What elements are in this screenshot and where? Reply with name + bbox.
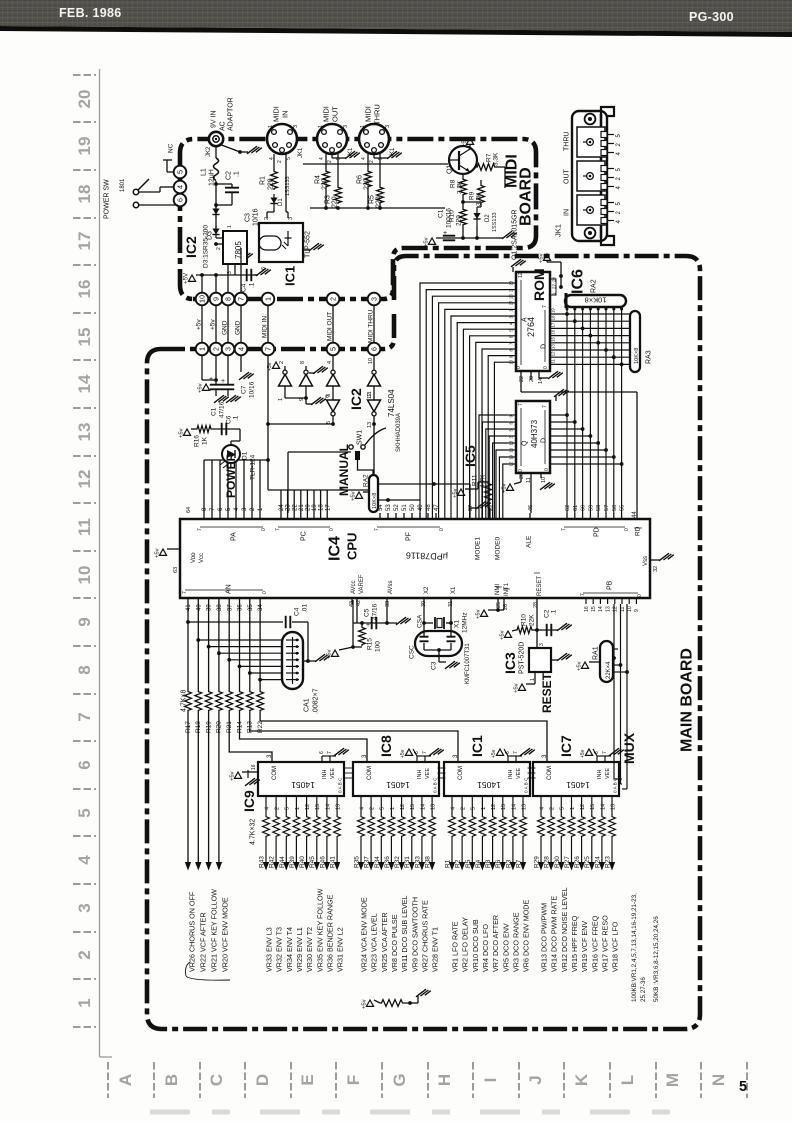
svg-text:7: 7 <box>542 305 548 308</box>
svg-text:7: 7 <box>374 528 380 531</box>
resistor R5 220 <box>379 154 381 186</box>
svg-text:1: 1 <box>227 225 233 228</box>
svg-text:R23: R23 <box>605 856 612 868</box>
ROM address pins and CPU bus staircase <box>507 282 516 284</box>
svg-text:5: 5 <box>285 807 291 810</box>
JK1 jack IN <box>577 195 605 225</box>
+5v NMI <box>480 610 487 616</box>
RA2 pin dots <box>566 308 569 311</box>
svg-text:D1: D1 <box>278 198 284 206</box>
svg-text:48: 48 <box>426 504 432 511</box>
svg-text:13: 13 <box>336 804 342 810</box>
svg-text:RA2: RA2 <box>362 474 369 487</box>
ground near jack <box>247 146 257 154</box>
svg-text:12: 12 <box>400 804 406 810</box>
svg-text:X2: X2 <box>424 586 430 594</box>
svg-text:VR1 LFO RATE: VR1 LFO RATE <box>451 921 460 972</box>
multiplexer IC9 14051 box <box>258 762 344 796</box>
ground IC5 top <box>555 396 557 401</box>
svg-text:IN: IN <box>281 111 290 119</box>
diode D1 1SS133 <box>273 194 275 208</box>
svg-text:5: 5 <box>560 807 566 810</box>
svg-text:63: 63 <box>173 567 179 573</box>
svg-text:3: 3 <box>539 643 545 646</box>
svg-text:+: + <box>443 230 447 237</box>
svg-text:D2: D2 <box>485 214 491 222</box>
capacitor C1 100/16 <box>462 226 464 238</box>
svg-text:AN: AN <box>225 584 232 594</box>
svg-text:POWER: POWER <box>224 452 238 498</box>
capacitor C2 .1 reset <box>537 629 545 631</box>
svg-text:1: 1 <box>263 297 272 301</box>
resistor R3 220 <box>337 154 339 186</box>
svg-text:VR8 DCO PULSE: VR8 DCO PULSE <box>390 914 399 972</box>
arrow VR22 <box>195 862 201 871</box>
svg-text:R37: R37 <box>364 856 371 868</box>
wire AN34 to IC7 COM <box>260 712 547 762</box>
svg-text:VR28 ENV T1: VR28 ENV T1 <box>431 927 440 972</box>
svg-text:R4: R4 <box>475 859 482 868</box>
+5v Q1 emitter <box>469 144 471 149</box>
ceramic filter C3 KMFC1007T31 <box>415 631 462 656</box>
IC5 Q pins right <box>550 414 567 416</box>
svg-text:VEE: VEE <box>330 768 336 779</box>
wire MIDI IN pin5 to IC1 <box>285 154 287 212</box>
svg-text:0: 0 <box>261 528 267 531</box>
wire SW1 to CPU <box>288 451 351 453</box>
svg-text:N: N <box>709 1074 728 1086</box>
svg-text:X1: X1 <box>453 620 460 628</box>
svg-text:14: 14 <box>538 378 544 384</box>
resistor array RA1 22Kx4 <box>600 641 613 682</box>
reset IC3 PST-520D <box>529 648 551 672</box>
svg-text:R1: R1 <box>445 859 452 868</box>
svg-text:D: D <box>541 344 548 349</box>
svg-text:2: 2 <box>277 160 283 163</box>
svg-text:4: 4 <box>75 855 94 865</box>
svg-text:59: 59 <box>588 505 594 511</box>
svg-text:1: 1 <box>318 125 324 128</box>
svg-text:18: 18 <box>75 185 94 204</box>
svg-text:5: 5 <box>286 157 292 160</box>
photocoupler IC1 TLP-552 <box>259 223 303 262</box>
svg-text:5: 5 <box>75 808 94 817</box>
svg-text:14051: 14051 <box>386 780 410 790</box>
svg-text:VR31 ENV L2: VR31 ENV L2 <box>336 927 345 972</box>
svg-text:41: 41 <box>186 604 192 611</box>
svg-text:L: L <box>618 1075 637 1085</box>
svg-text:R28: R28 <box>544 856 551 868</box>
svg-text:R6: R6 <box>495 859 502 868</box>
svg-text:33: 33 <box>385 601 391 607</box>
svg-text:50KB :VR3,6,8-12,15,20,24,26: 50KB :VR3,6,8-12,15,20,24,26 <box>653 916 660 1002</box>
svg-text:1: 1 <box>570 807 576 810</box>
svg-text:K: K <box>572 1073 591 1086</box>
svg-text:+5v: +5v <box>400 749 406 758</box>
svg-text:E: E <box>298 1074 317 1085</box>
svg-text:SKHHAD039A: SKHHAD039A <box>396 413 402 452</box>
svg-text:4: 4 <box>539 807 545 810</box>
svg-text:IC8: IC8 <box>378 735 394 757</box>
svg-text:13: 13 <box>367 422 373 428</box>
LED D1 TLR-124 POWER <box>239 429 241 441</box>
crystal X1 12MHz <box>423 604 425 623</box>
svg-text:3: 3 <box>369 297 378 301</box>
resistor R6 220 <box>367 154 369 170</box>
scan artifact dashes bottom <box>150 1110 700 1115</box>
svg-text:PA: PA <box>230 532 237 541</box>
svg-text:MUX: MUX <box>621 732 637 764</box>
svg-text:43: 43 <box>349 601 355 607</box>
svg-text:10K×8: 10K×8 <box>585 296 607 305</box>
JK1 pin tabs <box>601 132 607 138</box>
svg-text:C1: C1 <box>210 407 217 416</box>
svg-text:14051: 14051 <box>477 780 501 790</box>
svg-text:51: 51 <box>402 504 408 511</box>
svg-text:JK1: JK1 <box>298 147 304 158</box>
svg-text:32: 32 <box>653 566 659 572</box>
ground IC2b upper <box>309 372 315 374</box>
svg-text:MAIN BOARD: MAIN BOARD <box>679 648 696 752</box>
svg-text:CA1: CA1 <box>303 698 310 712</box>
svg-text:2: 2 <box>75 950 94 959</box>
ground IC9 lower-left <box>247 770 249 778</box>
JK1 jack OUT <box>577 161 605 191</box>
svg-text:13: 13 <box>522 804 528 810</box>
svg-text:7: 7 <box>542 405 548 408</box>
svg-text:C7: C7 <box>240 385 247 394</box>
svg-text:5: 5 <box>328 347 337 351</box>
svg-text:74LS04: 74LS04 <box>387 389 396 417</box>
svg-text:13: 13 <box>431 804 437 810</box>
ground MIDI THRU shield <box>373 152 375 158</box>
svg-text:11: 11 <box>526 477 532 483</box>
wires AN to multiplexer commons <box>230 712 232 752</box>
svg-text:VR30 ENV T2: VR30 ENV T2 <box>305 927 314 972</box>
svg-text:VR2 LFO DELAY: VR2 LFO DELAY <box>461 917 470 972</box>
ROM data wires to RA3 <box>550 313 630 315</box>
svg-text:VEE: VEE <box>605 768 611 779</box>
svg-text:R5: R5 <box>465 859 472 868</box>
svg-text:34: 34 <box>258 604 264 611</box>
diode D2 1SS133 <box>480 204 482 207</box>
svg-text:9V IN: 9V IN <box>210 110 217 128</box>
svg-text:M: M <box>663 1073 682 1087</box>
svg-text:R7: R7 <box>485 153 492 162</box>
inverter IC2b <box>305 366 307 370</box>
connector pin 7 <box>235 293 248 306</box>
svg-text:6: 6 <box>75 760 94 769</box>
svg-text:16: 16 <box>551 329 556 334</box>
capacitor C2 .1 <box>214 182 218 186</box>
ground C4 <box>254 274 258 276</box>
ground Q1 cluster <box>496 237 503 239</box>
CPU NMI INT1 pins <box>497 598 499 604</box>
svg-text:MODE1: MODE1 <box>474 537 481 561</box>
svg-text:R40: R40 <box>299 856 306 868</box>
CPU PB pins <box>585 598 587 604</box>
svg-text:+5v: +5v <box>502 483 508 493</box>
svg-text:C1: C1 <box>437 209 444 218</box>
+5v CPU supply <box>159 549 166 555</box>
svg-text:7: 7 <box>422 751 428 754</box>
connector pin 1 MIDI IN out <box>262 293 275 306</box>
svg-text:2: 2 <box>461 807 467 810</box>
svg-text:AC: AC <box>219 121 226 131</box>
svg-text:+: + <box>366 622 370 629</box>
svg-text:A: A <box>116 1074 135 1086</box>
svg-text:17: 17 <box>75 232 94 251</box>
svg-text:CSA: CSA <box>416 614 423 628</box>
svg-text:14: 14 <box>511 804 517 810</box>
svg-text:62: 62 <box>565 505 571 511</box>
ground MODE1 <box>469 508 471 513</box>
svg-text:16: 16 <box>584 606 590 612</box>
connector JK2 9V jack <box>209 132 223 146</box>
wire jack to L1 <box>215 146 217 158</box>
brace under VR20 group <box>186 962 191 976</box>
svg-text:VR18 VCF LFO: VR18 VCF LFO <box>611 921 620 972</box>
svg-text:27: 27 <box>509 300 514 305</box>
svg-text:4: 4 <box>361 157 367 160</box>
svg-text:19: 19 <box>509 454 514 459</box>
svg-text:14: 14 <box>75 374 94 393</box>
svg-text:COM: COM <box>367 766 373 780</box>
svg-text:13: 13 <box>551 344 556 349</box>
svg-text:9: 9 <box>75 617 94 626</box>
svg-text:3: 3 <box>223 347 232 351</box>
CA1 input wires <box>196 638 200 642</box>
svg-text:R6: R6 <box>356 175 363 184</box>
svg-text:VR14 DCO PWM RATE: VR14 DCO PWM RATE <box>550 896 559 972</box>
capacitor C7 10/16 main <box>227 356 229 384</box>
svg-text:6: 6 <box>175 198 184 202</box>
svg-text:13: 13 <box>605 606 611 612</box>
IC5 bottom pins <box>520 473 522 482</box>
svg-text:1: 1 <box>197 347 206 351</box>
ground C3 <box>445 661 455 669</box>
svg-text:11: 11 <box>75 518 94 536</box>
svg-text:47/16: 47/16 <box>218 401 225 418</box>
svg-text:R16: R16 <box>193 435 200 447</box>
svg-text:R15: R15 <box>366 638 373 650</box>
ground pin4 main <box>240 356 242 372</box>
diode D3 pair <box>215 226 217 238</box>
svg-text:100: 100 <box>374 641 381 652</box>
resistor R10 220 <box>462 196 464 208</box>
wire PC bus <box>280 490 282 513</box>
svg-text:7: 7 <box>561 528 567 531</box>
arrow VR21 <box>205 862 211 871</box>
resistor R1 220 <box>273 154 275 170</box>
svg-text:X1: X1 <box>451 586 457 594</box>
svg-text:8: 8 <box>223 297 232 301</box>
svg-text:12MHz: 12MHz <box>461 612 468 633</box>
svg-text:0: 0 <box>439 528 445 531</box>
svg-text:VR33 ENV L3: VR33 ENV L3 <box>265 927 274 972</box>
svg-text:22: 22 <box>292 504 298 511</box>
resistor R10 22K reset <box>516 627 533 634</box>
svg-text:5: 5 <box>380 807 386 810</box>
svg-text:0: 0 <box>516 366 522 369</box>
svg-text:1: 1 <box>278 398 284 401</box>
svg-text:.1: .1 <box>232 415 239 421</box>
svg-text:VEE: VEE <box>425 768 431 779</box>
svg-text:IC4: IC4 <box>327 536 344 561</box>
svg-text:3.3K: 3.3K <box>456 180 463 194</box>
svg-text:GND: GND <box>234 320 241 335</box>
svg-text:Q: Q <box>522 440 529 446</box>
svg-text:11: 11 <box>620 607 626 612</box>
inverter IC2a <box>284 366 286 370</box>
svg-text:7: 7 <box>236 297 245 301</box>
svg-text:6: 6 <box>261 267 267 270</box>
connector pin 2 main <box>210 343 223 356</box>
svg-text:SW1: SW1 <box>356 430 363 445</box>
svg-text:ROM: ROM <box>531 268 547 301</box>
CPU IC4 uPD78116 box <box>180 519 650 598</box>
resistor array RA2 10Kx8 <box>565 295 626 307</box>
wire AN36 to IC8 COM <box>240 712 368 762</box>
inverter IC2f <box>373 386 375 400</box>
CA1 common ground <box>303 660 316 662</box>
svg-text:MIDI: MIDI <box>322 106 331 122</box>
svg-text:.1: .1 <box>550 609 557 615</box>
svg-text:22K×4: 22K×4 <box>606 661 612 679</box>
svg-text:VR35 ENV KEY FOLLOW: VR35 ENV KEY FOLLOW <box>315 888 324 972</box>
svg-text:D1: D1 <box>241 451 248 460</box>
svg-text:15: 15 <box>551 336 556 341</box>
svg-text:R26: R26 <box>574 856 581 868</box>
svg-text:+5v: +5v <box>424 237 430 247</box>
svg-text:+5V: +5V <box>183 272 190 284</box>
svg-text:47/16: 47/16 <box>371 603 378 620</box>
svg-text:POWER SW: POWER SW <box>104 179 111 219</box>
svg-text:100KB:VR1,2,4,5,7,13,14,16-19,: 100KB:VR1,2,4,5,7,13,14,16-19,21-23, <box>631 893 638 1002</box>
svg-text:H: H <box>435 1074 454 1086</box>
multiplexer IC7 14051 box <box>533 762 619 796</box>
transistor Q1 2SA1015GR <box>449 146 477 174</box>
svg-text:JK2: JK2 <box>206 146 212 157</box>
ground C5 <box>396 617 406 625</box>
wire MIDI OUT link <box>332 305 334 343</box>
svg-text:6: 6 <box>319 751 325 754</box>
connector pin 9 <box>210 293 223 306</box>
resistor array RA3 10Kx8 <box>630 311 640 372</box>
ROM IC6 2764 box <box>516 272 550 371</box>
svg-text:R35: R35 <box>354 856 361 868</box>
svg-text:14: 14 <box>598 606 604 612</box>
svg-text:4: 4 <box>175 185 184 189</box>
svg-text:12: 12 <box>491 804 497 810</box>
svg-text:10: 10 <box>541 477 547 483</box>
svg-text:INH: INH <box>508 770 514 780</box>
svg-text:20: 20 <box>529 376 535 382</box>
svg-text:+5v: +5v <box>351 491 357 501</box>
svg-text:10: 10 <box>627 606 633 612</box>
svg-text:R25: R25 <box>584 856 591 868</box>
capacitor C6 .1 <box>212 428 240 430</box>
IC1 INH VEE pins <box>507 756 509 762</box>
select bus ABC <box>613 604 615 779</box>
svg-text:CSC: CSC <box>408 645 415 659</box>
svg-text:17: 17 <box>551 322 556 327</box>
resistor array RA2 10Kx8 manual <box>369 475 378 512</box>
svg-text:20: 20 <box>519 473 525 479</box>
svg-text:12: 12 <box>518 272 524 278</box>
resistor R4 220 <box>325 154 327 170</box>
wire inverter outputs <box>332 416 334 424</box>
svg-text:VR4 DCO LFO: VR4 DCO LFO <box>481 924 490 972</box>
svg-text:+5v: +5v <box>500 630 506 640</box>
svg-text:1K: 1K <box>201 436 208 445</box>
svg-text:L1: L1 <box>200 168 207 176</box>
svg-text:5: 5 <box>739 1079 747 1095</box>
wire NC stub <box>166 160 168 172</box>
svg-text:220: 220 <box>267 178 274 190</box>
svg-text:C6: C6 <box>225 415 232 424</box>
svg-text:VR34 ENV T4: VR34 ENV T4 <box>285 927 294 972</box>
svg-text:15: 15 <box>590 804 596 810</box>
+5v rail below pin1 <box>201 356 203 380</box>
svg-text:4.7K×8: 4.7K×8 <box>180 690 187 712</box>
svg-text:220: 220 <box>375 196 382 208</box>
connector pin 2 MIDI OUT <box>327 293 340 306</box>
svg-text:+5v: +5v <box>491 749 497 758</box>
svg-text:+5v: +5v <box>580 749 586 758</box>
svg-text:VR21 VCF KEY FOLLOW: VR21 VCF KEY FOLLOW <box>210 889 219 972</box>
svg-text:INH: INH <box>597 770 603 780</box>
IC8 INH VEE pins <box>416 756 418 762</box>
svg-text:μPD78116: μPD78116 <box>406 550 448 561</box>
svg-text:IC6: IC6 <box>570 269 587 294</box>
svg-text:VR32 ENV T3: VR32 ENV T3 <box>275 927 284 972</box>
svg-text:9: 9 <box>299 398 305 401</box>
svg-text:60: 60 <box>581 505 587 511</box>
svg-text:BOARD: BOARD <box>518 167 535 226</box>
capacitor C5 .47/16 <box>356 610 358 623</box>
wire GND pin4 <box>240 305 242 343</box>
svg-text:1: 1 <box>268 125 274 128</box>
resistor R16 1K + LED power <box>183 429 190 435</box>
wire MIDI THRU link <box>373 305 375 343</box>
svg-text:VR26 CHORUS ON OFF: VR26 CHORUS ON OFF <box>188 891 197 972</box>
svg-text:MIDI THRU: MIDI THRU <box>367 309 374 343</box>
svg-text:7: 7 <box>275 528 281 531</box>
ground IC2b <box>305 386 307 404</box>
svg-text:25,27-36: 25,27-36 <box>640 977 647 1002</box>
svg-text:10K×8: 10K×8 <box>634 348 640 364</box>
svg-text:13: 13 <box>509 440 514 445</box>
svg-text:Vᴅᴅ: Vᴅᴅ <box>191 552 197 563</box>
svg-text:12: 12 <box>305 804 311 810</box>
inverter IC2e <box>332 386 334 400</box>
svg-text:15: 15 <box>591 606 597 612</box>
resistor array R17-R22 4.7Kx8 <box>187 604 189 690</box>
svg-text:VAREF: VAREF <box>359 574 365 594</box>
svg-text:1: 1 <box>75 998 94 1007</box>
svg-text:NC: NC <box>167 143 174 153</box>
svg-text:0: 0 <box>262 591 268 594</box>
svg-text:0: 0 <box>543 366 549 369</box>
svg-text:R8: R8 <box>485 859 492 868</box>
svg-text:TLP-552: TLP-552 <box>304 231 311 258</box>
svg-text:IC1: IC1 <box>283 266 298 286</box>
svg-text:R24: R24 <box>594 856 601 868</box>
svg-text:57: 57 <box>604 505 610 511</box>
svg-text:3.3K: 3.3K <box>492 152 499 166</box>
CPU RESET pin 28 <box>536 598 538 604</box>
